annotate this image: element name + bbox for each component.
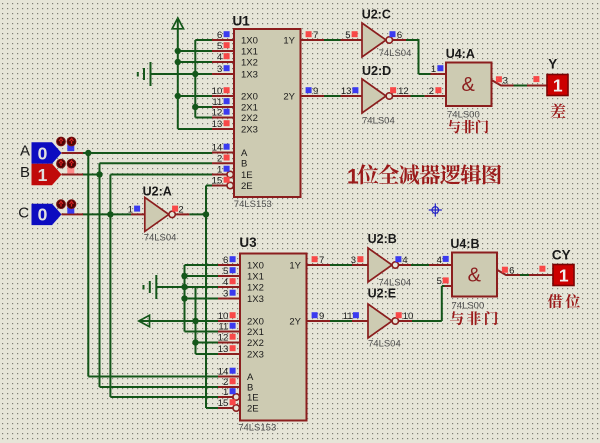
wire GND to U1 pin12 [195, 117, 212, 119]
inverter U2:B 74LS04 [351, 232, 411, 288]
wire U4:B pin4 stub [429, 264, 452, 266]
svg-text:1X2: 1X2 [241, 57, 258, 68]
U1 pin 7 (1Y) stub [301, 39, 325, 41]
wire B vertical [99, 163, 101, 387]
svg-text:1E: 1E [247, 392, 259, 403]
U1 value label 74LS153 [234, 199, 272, 210]
svg-text:10: 10 [212, 86, 223, 97]
svg-text:4: 4 [437, 255, 442, 266]
svg-text:U3: U3 [239, 235, 257, 250]
svg-text:U2:E: U2:E [368, 286, 396, 300]
svg-text:2X2: 2X2 [247, 338, 264, 349]
svg-text:12: 12 [398, 86, 409, 97]
inverter U2:C 74LS04 [345, 8, 411, 59]
svg-text:6: 6 [223, 255, 228, 266]
label NAND gate (bottom) 与非门 [450, 311, 498, 325]
U3 pin 9 number/state [312, 311, 325, 322]
wire U2:E input stub [352, 320, 368, 322]
svg-text:10: 10 [403, 311, 414, 322]
wire 1Y to U2:C [324, 39, 341, 41]
wire U2:E output stub [399, 320, 413, 322]
svg-text:74LS00: 74LS00 [452, 300, 485, 311]
svg-text:1: 1 [38, 165, 48, 185]
svg-text:1: 1 [128, 205, 133, 216]
U4:B reference label [450, 237, 479, 251]
svg-text:Y: Y [548, 56, 557, 71]
U1 pin 9 number/state [306, 86, 319, 97]
svg-text:0: 0 [38, 205, 48, 225]
wire C vertical (1E net) [109, 175, 111, 398]
wire C to U2:A input [83, 213, 131, 215]
junction GND-pin3 [192, 71, 198, 77]
svg-text:4: 4 [217, 52, 222, 63]
svg-text:2X0: 2X0 [241, 91, 258, 102]
junction node A [85, 150, 91, 156]
svg-text:5: 5 [223, 266, 228, 277]
U4:B pin5 number/state [437, 276, 449, 287]
wire VCC2 to U3 pin12 [196, 342, 219, 344]
wire 2Y to U2:E [330, 320, 352, 322]
U3 pin 2E stub + bubble [218, 405, 239, 411]
junction VCC2-pin10 [192, 318, 198, 324]
wire U2:A out to junction [189, 213, 206, 215]
wire VCC to U1 pin4 [178, 61, 212, 63]
U3 pin 9 (2Y) stub [307, 320, 331, 322]
wire U2:D output stub [393, 95, 411, 97]
U3 pin names [247, 260, 302, 414]
CY probe pin stub [529, 266, 553, 275]
wire B to U3 pinB [100, 386, 219, 388]
svg-text:2: 2 [217, 154, 222, 165]
svg-text:74LS04: 74LS04 [144, 232, 177, 243]
svg-text:7: 7 [313, 30, 318, 41]
input A toggle buttons [57, 137, 76, 151]
svg-text:1E: 1E [241, 170, 253, 181]
svg-text:1: 1 [217, 165, 222, 176]
svg-text:2X2: 2X2 [241, 113, 258, 124]
svg-text:0: 0 [38, 143, 48, 163]
svg-text:2: 2 [429, 86, 434, 97]
label 差 (difference) [551, 104, 566, 118]
U4:B pin4 number/state [437, 255, 449, 266]
svg-text:1: 1 [553, 76, 563, 96]
wire GND to U1 pin11 [195, 106, 212, 108]
junction node CBAR [203, 211, 209, 217]
svg-text:13: 13 [218, 344, 229, 355]
wire ground2 to U3 pin4 [156, 286, 218, 288]
power terminal VCC arrow [172, 18, 183, 129]
junction GND2-pin3 [181, 295, 187, 301]
U3 pin 1E stub + bubble [218, 394, 239, 400]
U1 pin 9 (2Y) stub [301, 95, 325, 97]
svg-text:2X3: 2X3 [247, 349, 264, 360]
svg-text:CY: CY [552, 248, 571, 263]
U4:A pin2 number/state [429, 86, 442, 97]
logic state input B [20, 164, 62, 185]
svg-text:4: 4 [223, 277, 228, 288]
U3 pin 7 (1Y) stub [307, 264, 331, 266]
wire C to U3 pin1E [110, 396, 218, 398]
svg-text:3: 3 [217, 64, 222, 75]
svg-text:2X0: 2X0 [247, 316, 264, 327]
svg-text:12: 12 [218, 333, 229, 344]
wire VCC2 vertical [195, 287, 197, 354]
svg-text:74LS04: 74LS04 [368, 338, 401, 349]
junction node B [96, 171, 102, 177]
wire GND2 vertical [184, 265, 186, 332]
U1 pin names [241, 35, 296, 192]
U4:B output pin 6 [497, 265, 521, 276]
U3 pin 7 number/state [312, 255, 325, 266]
CY probe label [552, 248, 571, 263]
svg-text:U4:A: U4:A [446, 47, 475, 61]
wire U2:C input stub [341, 39, 363, 41]
wire GND vertical [194, 40, 196, 118]
wire C to U1 pin1E [110, 174, 212, 176]
wire GND2 to U3 pin3 [185, 298, 219, 300]
U4:A value label 74LS00 [447, 110, 480, 121]
svg-text:12: 12 [212, 108, 223, 119]
U1 pin 7 number/state [306, 30, 319, 41]
U3 value label 74LS153 [238, 423, 276, 434]
svg-text:U2:D: U2:D [362, 64, 391, 78]
svg-text:1: 1 [223, 387, 228, 398]
svg-text:&: & [468, 265, 482, 287]
U1 left pin numbers and state squares [212, 30, 230, 187]
svg-text:74LS04: 74LS04 [362, 116, 395, 127]
wire ground to U1 pin3 [151, 73, 213, 75]
wire U2:B output stub [399, 264, 412, 266]
wire U4:A pin2 stub [425, 95, 446, 97]
wire VCC to U1 pin13 [178, 128, 212, 130]
svg-text:1X1: 1X1 [241, 46, 258, 57]
svg-text:1X0: 1X0 [247, 260, 264, 271]
origin marker [429, 203, 442, 216]
wire A to U3 pinA [88, 376, 218, 378]
svg-text:1X3: 1X3 [241, 69, 258, 80]
inverter U2:D 74LS04 [341, 64, 409, 127]
svg-text:U1: U1 [233, 14, 251, 29]
U1 reference label [233, 14, 251, 29]
svg-text:B: B [20, 164, 30, 181]
junction GND-pin11 [192, 104, 198, 110]
svg-text:1: 1 [431, 64, 436, 75]
title 1位全减器逻辑图 [347, 164, 501, 188]
svg-text:2E: 2E [241, 181, 253, 192]
inverter U2:E 74LS04 [343, 286, 414, 349]
svg-text:13: 13 [212, 119, 223, 130]
svg-text:13: 13 [341, 86, 352, 97]
svg-text:2E: 2E [247, 403, 259, 414]
multiplexer U1 74LS153 body [234, 29, 301, 197]
svg-text:1X1: 1X1 [247, 271, 264, 282]
svg-text:U2:B: U2:B [368, 232, 397, 246]
svg-text:11: 11 [343, 311, 353, 322]
svg-text:3: 3 [351, 255, 356, 266]
svg-text:U2:A: U2:A [143, 184, 172, 198]
svg-text:15: 15 [218, 398, 229, 409]
svg-text:C: C [18, 204, 29, 221]
U4:B value label 74LS00 [452, 300, 485, 311]
wire GND2 to U3 pin6 [185, 264, 219, 266]
U3 left pin stubs [218, 265, 241, 387]
wire B pin stub [62, 174, 84, 176]
svg-text:U4:B: U4:B [450, 237, 479, 251]
svg-text:1Y: 1Y [283, 35, 295, 46]
svg-text:1: 1 [347, 166, 359, 189]
U1 pin 2E stub + bubble [212, 182, 233, 188]
wire U4:A out to Y probe [514, 85, 528, 87]
svg-text:4: 4 [402, 255, 407, 266]
U4:A output pin 3 [492, 76, 514, 87]
svg-text:1Y: 1Y [289, 260, 301, 271]
wire U4:A pin1 stub [431, 73, 447, 75]
svg-text:3: 3 [223, 289, 228, 300]
svg-text:3: 3 [503, 76, 508, 87]
logic state input A [20, 142, 62, 163]
U3 left pin numbers and state squares [218, 255, 236, 409]
svg-text:74LS153: 74LS153 [234, 199, 272, 210]
junction VCC-pin10 [175, 93, 181, 99]
wire U2:C output stub [393, 39, 407, 41]
wire VCC to U1 pin5 [178, 50, 212, 52]
junction VCC-pin5 [175, 48, 181, 54]
terminal arrow (left) [139, 315, 218, 326]
U4:A pin1 number/state [431, 64, 443, 75]
ground symbol (bottom) [144, 275, 157, 299]
wire C pin stub [62, 213, 84, 215]
wire VCC to U1 pin10 [178, 95, 212, 97]
wire B tip to junction [83, 174, 100, 176]
U1 pin 1E stub + bubble [212, 171, 233, 177]
label NAND gate (top) 与非门 [447, 120, 488, 134]
wire A pin stub [62, 152, 84, 154]
wire U2:B out to U4:B pin4 [411, 264, 429, 266]
svg-text:5: 5 [217, 41, 222, 52]
ground symbol (top) [138, 62, 151, 86]
svg-text:6: 6 [217, 30, 222, 41]
multiplexer U3 74LS153 body [240, 254, 307, 421]
junction node C [107, 211, 113, 217]
wire VCC2 to U3 pin13 [196, 353, 219, 355]
svg-text:1X3: 1X3 [247, 294, 264, 305]
svg-text:6: 6 [509, 265, 514, 276]
wire GND2 to U3 pin11 [185, 331, 219, 333]
wire U2:E out corner up [412, 286, 445, 321]
svg-text:1X0: 1X0 [241, 35, 258, 46]
wire 2E vertical [205, 186, 207, 409]
wire 2Y to U2:D [324, 95, 341, 97]
svg-text:5: 5 [437, 276, 442, 287]
wire U2:B input stub [352, 264, 368, 266]
svg-text:11: 11 [218, 322, 228, 333]
svg-text:11: 11 [212, 97, 222, 108]
svg-text:B: B [241, 159, 247, 170]
svg-text:14: 14 [218, 367, 229, 378]
wire U2:A input stub [131, 213, 145, 215]
svg-text:2X1: 2X1 [247, 327, 264, 338]
Y probe label [548, 56, 557, 71]
junction VCC2-pin12 [192, 339, 198, 345]
wire U4:B out to CY probe [520, 274, 529, 276]
label 借位 (borrow) [548, 294, 580, 308]
svg-text:1X2: 1X2 [247, 282, 264, 293]
junction GND2-pin4 [181, 284, 187, 290]
wire U2:D out to U4:A pin2 [411, 95, 425, 97]
svg-text:2: 2 [178, 205, 183, 216]
wire B to U1 pinB [100, 162, 213, 164]
U4:B ampersand [468, 265, 482, 287]
svg-text:U2:C: U2:C [362, 8, 391, 22]
svg-text:A: A [247, 372, 254, 383]
U1 left pin stubs [212, 40, 235, 163]
input B toggle buttons [57, 159, 76, 173]
svg-text:7: 7 [319, 255, 324, 266]
svg-text:74LS153: 74LS153 [238, 423, 276, 434]
svg-text:2Y: 2Y [283, 91, 295, 102]
nand gate U4:B 74LS00 body [452, 253, 497, 297]
wire U2:D input stub [341, 95, 363, 97]
wire U2:A output stub [175, 213, 189, 215]
wire to U1 pin2E [206, 185, 212, 187]
svg-text:A: A [241, 148, 248, 159]
junction VCC-pin4 [175, 59, 181, 65]
U4:A reference label [446, 47, 475, 61]
U4:A ampersand [462, 74, 476, 96]
wire U4:B pin5 stub [445, 285, 453, 287]
wire U2:C out [406, 39, 419, 41]
inverter U2:A 74LS04 [128, 184, 184, 243]
svg-text:2X1: 2X1 [241, 102, 258, 113]
U3 reference label [239, 235, 257, 250]
svg-text:5: 5 [345, 30, 350, 41]
svg-text:74LS04: 74LS04 [379, 48, 412, 59]
wire A to junction [83, 152, 212, 154]
svg-text:10: 10 [218, 311, 229, 322]
wire GND2 to U3 pin5 [185, 275, 219, 277]
svg-text:6: 6 [397, 30, 402, 41]
svg-text:9: 9 [319, 311, 324, 322]
wire 1Y to U2:B [330, 264, 352, 266]
nand gate U4:A 74LS00 body [446, 63, 492, 107]
wire A vertical down [87, 153, 89, 377]
wire down to U4:A pin1 [419, 39, 431, 74]
svg-text:9: 9 [313, 86, 318, 97]
input C toggle buttons [57, 200, 76, 214]
svg-text:2Y: 2Y [289, 316, 301, 327]
svg-text:&: & [462, 74, 476, 96]
logic probe Y [547, 75, 568, 96]
svg-text:2X3: 2X3 [241, 124, 258, 135]
svg-text:1: 1 [559, 266, 569, 286]
svg-text:A: A [20, 143, 30, 160]
svg-text:14: 14 [212, 143, 223, 154]
logic state input C [18, 204, 61, 225]
svg-text:74LS00: 74LS00 [447, 110, 480, 121]
Y probe pin stub [527, 76, 547, 85]
junction GND2-pin5 [181, 273, 187, 279]
logic probe CY [553, 265, 574, 286]
wire CBAR to U3 pin2E [206, 407, 218, 409]
wire GND to U1 pin6 [195, 39, 212, 41]
svg-text:15: 15 [212, 176, 223, 187]
